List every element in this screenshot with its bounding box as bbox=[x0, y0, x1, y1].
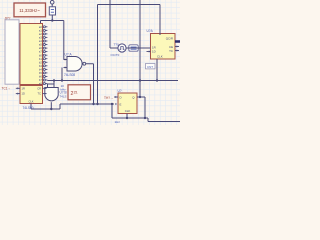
IC U5 right pin wire Q bbox=[137, 96, 145, 98]
wire vertical to gate U1 top input bbox=[63, 21, 65, 60]
svg-text:QC/R: QC/R bbox=[166, 37, 173, 41]
crystal Y1 terminal circle bbox=[50, 0, 54, 6]
svg-text:1D: 1D bbox=[152, 49, 156, 53]
IC U3 bottom pin bbox=[30, 104, 32, 110]
annotation box 11,333Hz bbox=[14, 3, 46, 17]
gate U1B body bbox=[45, 88, 58, 101]
svg-text:1R: 1R bbox=[22, 86, 25, 90]
IC U4 thick output bus bbox=[175, 40, 180, 43]
wire U4 clk to rail bbox=[156, 59, 158, 81]
label CN? bbox=[146, 64, 156, 69]
wire output down bbox=[93, 64, 95, 104]
svg-text:CLK: CLK bbox=[125, 109, 131, 113]
wire long rail from U2 pin bbox=[47, 80, 178, 82]
IC U2 body bbox=[20, 24, 43, 85]
wire horizontal y104 bbox=[60, 103, 114, 105]
svg-text:CLK: CLK bbox=[157, 54, 163, 58]
wire bottom run bbox=[112, 117, 145, 119]
wire bottom out bbox=[145, 117, 148, 119]
IC U4 left pin stub bbox=[147, 50, 151, 52]
annotation box 2^15 bbox=[68, 85, 91, 100]
wire IC top pin drop bbox=[40, 21, 42, 25]
svg-text:TC1→: TC1→ bbox=[2, 87, 11, 91]
svg-text:kHz: kHz bbox=[61, 88, 67, 92]
svg-text:CLK: CLK bbox=[28, 99, 33, 103]
svg-text:1Hz: 1Hz bbox=[115, 120, 121, 124]
svg-text:74LS08: 74LS08 bbox=[64, 73, 75, 77]
svg-text:TH?→: TH?→ bbox=[104, 96, 113, 100]
wire V97 bbox=[97, 5, 99, 105]
svg-text:11,333Hz~: 11,333Hz~ bbox=[19, 8, 40, 13]
wire V140 bbox=[139, 0, 141, 97]
svg-text:OC/T0: OC/T0 bbox=[111, 53, 120, 57]
wire rail to gate U1B bbox=[53, 81, 55, 88]
wire top horizontal H1 bbox=[98, 4, 161, 6]
gate U1A output bubble bbox=[83, 62, 86, 65]
svg-text:CR: CR bbox=[37, 86, 41, 90]
wire U3 clk run bbox=[31, 108, 60, 110]
wire gate U1B output bbox=[50, 102, 52, 109]
svg-text:TC: TC bbox=[169, 49, 173, 53]
crystal Y1 body bbox=[49, 7, 55, 15]
wire V110 clock feed bbox=[109, 0, 111, 48]
IC U3 right pins bbox=[43, 87, 47, 95]
IC U5 labels bbox=[120, 95, 136, 113]
gate U1A body bbox=[67, 57, 82, 72]
svg-text:U?A: U?A bbox=[147, 29, 154, 33]
wire drop x112 bbox=[111, 104, 113, 118]
junction node crystal bbox=[51, 19, 53, 21]
gate U1A input stubs bbox=[64, 58, 68, 68]
svg-text:D: D bbox=[120, 95, 122, 99]
annotation small text 10kHz bbox=[61, 84, 67, 92]
IC U5 clk drop bbox=[126, 114, 128, 119]
wire node to gate U1 input bbox=[52, 20, 64, 22]
IC U2 right pins bbox=[39, 25, 47, 86]
IC U4 body bbox=[151, 34, 176, 60]
IC U4 right pin stubs bbox=[175, 45, 179, 51]
svg-text:CN?: CN? bbox=[147, 65, 153, 69]
wire clock to U4 bbox=[126, 47, 151, 49]
wire gate U1A output bbox=[86, 63, 94, 65]
svg-text:TC: TC bbox=[38, 92, 42, 96]
clock generator tag bbox=[129, 45, 138, 51]
connector J1 body bbox=[5, 20, 19, 84]
grid background bbox=[0, 0, 180, 125]
IC U5 left pins bbox=[114, 96, 118, 105]
svg-text:E: E bbox=[120, 102, 122, 106]
wire up jog bbox=[59, 104, 61, 109]
wire Q down bbox=[144, 97, 146, 118]
wire gate U1A lower input to rail bbox=[61, 68, 63, 81]
wire node to IC top pin bbox=[41, 20, 53, 22]
IC U3 pin labels bbox=[22, 86, 42, 103]
svg-text:1D: 1D bbox=[22, 92, 25, 96]
IC U4 labels bbox=[152, 37, 173, 59]
clock generator circle bbox=[118, 44, 126, 52]
svg-text:74LS: 74LS bbox=[60, 95, 67, 99]
IC U3 body bbox=[20, 86, 43, 104]
IC U3 left pins bbox=[16, 87, 20, 95]
IC U5 body bbox=[118, 93, 137, 114]
wire crystal to node bbox=[51, 15, 53, 21]
wire U4 top pin from H1 bbox=[159, 5, 161, 36]
